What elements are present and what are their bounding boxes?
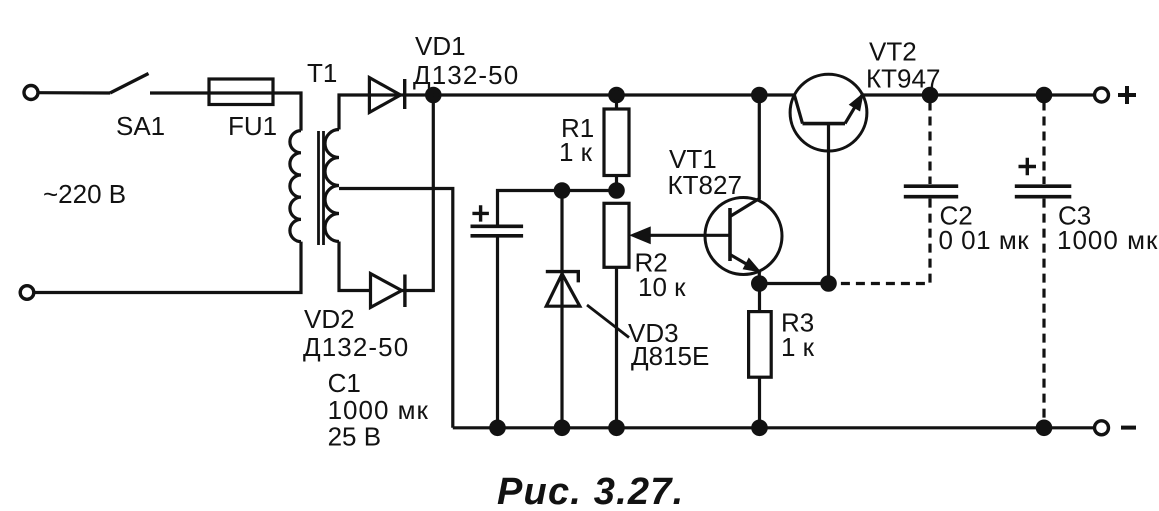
wire: secondary bottom to VD2 [339, 242, 371, 291]
C1 plus sign [472, 205, 489, 221]
output terminal plus [1095, 88, 1109, 102]
svg-text:FU1: FU1 [228, 111, 277, 141]
node: R2 bottom [610, 421, 623, 434]
transistor VT2 KT947 [790, 74, 867, 283]
node: R1 top [610, 88, 623, 101]
wire: VD2 cathode up to plus node [402, 95, 434, 291]
node: R1 bottom reference [610, 184, 623, 197]
svg-text:КТ827: КТ827 [668, 170, 742, 200]
wire: top rail from plus node to VT2 [433, 93, 794, 96]
node: VT1 emitter junction [753, 277, 766, 290]
resistor R2 (adjustable) [604, 203, 629, 427]
node: VT1 collector [753, 88, 766, 101]
capacitor C2 [904, 186, 958, 197]
diode VD2 [371, 274, 405, 308]
svg-text:Д132-50: Д132-50 [413, 60, 519, 90]
output minus sign [1121, 426, 1136, 430]
node: VT2 base junction [822, 277, 835, 290]
node: C2 top [923, 88, 936, 101]
svg-text:C1: C1 [328, 368, 361, 398]
svg-text:VD1: VD1 [415, 31, 466, 61]
C3 plus sign [1019, 158, 1037, 175]
svg-text:VD2: VD2 [304, 304, 355, 334]
svg-text:25 В: 25 В [328, 422, 382, 452]
svg-text:КТ947: КТ947 [866, 64, 940, 94]
svg-text:Д132-50: Д132-50 [303, 332, 409, 362]
transistor VT1 KT827 [705, 95, 782, 284]
node: VD3 bottom [555, 421, 568, 434]
node: C1 bottom [491, 421, 504, 434]
svg-text:1 к: 1 к [781, 332, 815, 362]
transformer T1 primary winding [290, 131, 301, 242]
wire: reference node line to C1 [498, 191, 617, 225]
resistor R1 [604, 95, 629, 191]
svg-text:T1: T1 [307, 58, 337, 88]
wire: terminal to switch pivot [39, 91, 111, 95]
VD3 label leader line [587, 305, 629, 338]
svg-text:Рис. 3.27.: Рис. 3.27. [497, 471, 684, 511]
wire: top rail from VT2 emitter to output plus [862, 93, 1095, 96]
svg-text:10 к: 10 к [638, 272, 686, 302]
node: rectifier plus output [427, 88, 440, 101]
zener diode VD3 [546, 191, 580, 428]
wire: VT1 emitter to VT2 base node [759, 282, 828, 285]
capacitor C2 dashed connections [928, 102, 931, 185]
node: R3 bottom [753, 421, 766, 434]
wire: switch to fuse to transformer [150, 93, 301, 131]
wire: primary bottom to lower input terminal [34, 242, 301, 293]
svg-text:1 к: 1 к [559, 137, 593, 167]
capacitor C3 dashed connections [1042, 102, 1045, 185]
node: C3 top [1037, 88, 1050, 101]
capacitor C3 [1015, 186, 1072, 197]
R2 wiper arrow to VT1 base [631, 228, 730, 244]
bottom rail [453, 426, 1095, 429]
svg-text:1000 мк: 1000 мк [328, 395, 429, 425]
svg-text:VT2: VT2 [869, 37, 917, 67]
svg-text:~220 В: ~220 В [43, 179, 126, 209]
wire: secondary top to VD1 [339, 95, 433, 130]
output terminal minus [1095, 421, 1109, 435]
input terminal top-left [24, 86, 38, 100]
input terminal bottom-left [20, 286, 34, 300]
node: C3 bottom [1037, 421, 1050, 434]
output plus sign [1118, 86, 1136, 104]
svg-text:Д815Е: Д815Е [631, 341, 709, 371]
svg-text:SA1: SA1 [116, 111, 165, 141]
capacitor C1 [471, 226, 524, 427]
transformer T1 secondary winding [325, 130, 339, 242]
svg-text:1000 мк: 1000 мк [1057, 225, 1158, 255]
transformer core [319, 131, 324, 245]
node: zener tap [555, 184, 568, 197]
diode VD1 [369, 78, 404, 113]
switch SA1 arm [110, 74, 149, 94]
fuse FU1 [209, 79, 273, 105]
svg-text:0 01 мк: 0 01 мк [939, 225, 1030, 255]
resistor R3 [749, 284, 772, 428]
wire: secondary center tap to bottom rail [339, 189, 453, 428]
